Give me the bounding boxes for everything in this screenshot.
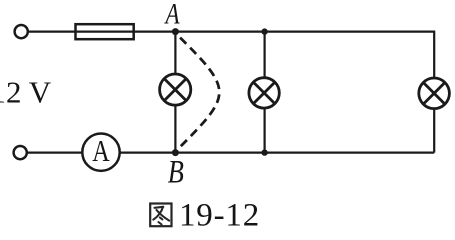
- svg-text:12 V: 12 V: [0, 75, 52, 110]
- svg-text:B: B: [168, 154, 184, 190]
- svg-text:19-12: 19-12: [179, 198, 260, 234]
- svg-text:A: A: [92, 134, 109, 169]
- svg-text:A: A: [164, 0, 181, 30]
